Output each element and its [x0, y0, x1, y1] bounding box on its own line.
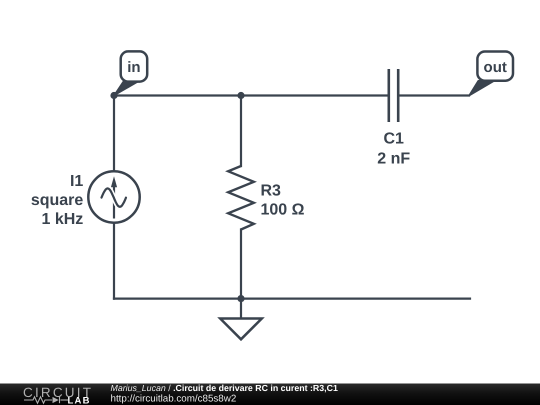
current source I1 — [88, 171, 139, 222]
label C1 value — [377, 131, 410, 168]
svg-text:Marius_Lucan / .Circuit de der: Marius_Lucan / .Circuit de derivare RC i… — [111, 383, 338, 393]
wire bottom rail — [114, 298, 470, 300]
label I1 value — [31, 173, 84, 228]
svg-text:1 kHz: 1 kHz — [42, 211, 84, 228]
wire left vertical lower (I1 bottom to bottom rail) — [113, 223, 115, 299]
wire left vertical upper (in node to I1 top) — [113, 96, 115, 172]
node flag out — [469, 52, 513, 96]
svg-text:I1: I1 — [70, 173, 83, 190]
svg-text:out: out — [484, 59, 507, 76]
svg-text:C1: C1 — [383, 131, 404, 148]
node in dot — [110, 92, 117, 99]
svg-text:square: square — [31, 192, 84, 209]
capacitor C1 — [389, 69, 398, 122]
svg-text:http://circuitlab.com/c85s8w2: http://circuitlab.com/c85s8w2 — [111, 393, 237, 404]
resistor R3 — [228, 166, 254, 230]
wire resistor bottom stub — [240, 230, 242, 299]
wire resistor top stub — [240, 96, 242, 167]
svg-text:100 Ω: 100 Ω — [261, 202, 305, 219]
node flag in — [114, 51, 147, 95]
footer bar — [0, 384, 540, 405]
svg-text:in: in — [127, 59, 140, 76]
junction dot top (R3 top) — [237, 92, 244, 99]
wire top-right segment (capacitor to out node) — [400, 94, 469, 96]
junction dot bottom (R3 bottom) — [237, 295, 244, 302]
svg-text:2 nF: 2 nF — [377, 151, 410, 168]
wire top-left segment (in node to capacitor) — [114, 94, 387, 96]
label R3 value — [261, 183, 305, 219]
CircuitLab logo — [23, 385, 93, 405]
svg-text:LAB: LAB — [68, 395, 91, 405]
ground — [220, 299, 262, 340]
svg-text:R3: R3 — [261, 183, 282, 200]
